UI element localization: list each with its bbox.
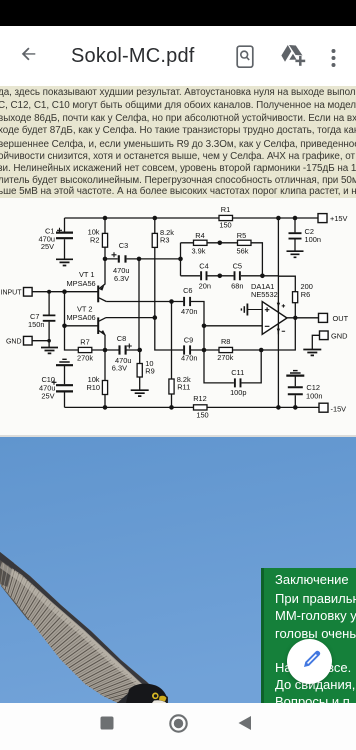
label C9 <box>181 335 197 362</box>
svg-text:100n: 100n <box>306 391 322 400</box>
capacitor C7 <box>43 315 56 320</box>
capacitor C10 <box>52 380 74 392</box>
svg-text:OUT: OUT <box>333 314 349 323</box>
svg-text:MPSA06: MPSA06 <box>67 313 96 322</box>
navigation bar <box>0 703 356 750</box>
svg-text:R10: R10 <box>86 383 100 392</box>
wire R10 branch <box>104 335 106 407</box>
label -15V <box>331 404 347 413</box>
label GND input <box>6 339 22 346</box>
svg-text:150: 150 <box>196 411 208 420</box>
wire -15V rail <box>65 406 320 408</box>
svg-text:+15V: +15V <box>330 214 348 223</box>
label C12 <box>306 383 322 400</box>
falcon eye <box>152 693 159 700</box>
svg-text:R3: R3 <box>160 235 169 244</box>
wire gnd input line <box>32 341 49 347</box>
resistor R1 <box>219 215 233 220</box>
svg-text:R6: R6 <box>301 290 310 299</box>
svg-text:GND: GND <box>331 332 347 341</box>
label R1 <box>219 205 231 229</box>
capacitor C12 <box>288 387 303 394</box>
svg-text:VT 1: VT 1 <box>79 270 94 279</box>
wire R3 drop to VT2 collector and C9 <box>155 218 184 350</box>
svg-text:68n: 68n <box>231 282 243 291</box>
label R12 <box>193 394 208 419</box>
svg-text:C11: C11 <box>231 368 244 377</box>
wire R6 branch <box>278 276 295 318</box>
label R11 <box>177 375 191 392</box>
capacitor C8 <box>120 344 132 355</box>
falcon white chin <box>152 700 166 703</box>
label GND out <box>331 332 347 341</box>
wire opamp inverting input <box>204 326 262 350</box>
overflow menu icon <box>329 47 338 69</box>
svg-text:25V: 25V <box>41 242 54 251</box>
pdf body text <box>0 86 356 198</box>
svg-text:R7: R7 <box>80 338 89 347</box>
terminal GND out <box>320 331 329 340</box>
svg-text:100n: 100n <box>305 235 321 244</box>
svg-text:56k: 56k <box>237 247 249 256</box>
terminal OUT <box>319 313 328 322</box>
label R5 <box>237 231 249 256</box>
capacitor C4 <box>201 271 206 280</box>
svg-text:C6: C6 <box>183 286 192 295</box>
svg-text:GND: GND <box>6 339 22 346</box>
resistor R7 <box>78 347 92 352</box>
svg-text:C8: C8 <box>117 334 126 343</box>
wire R2/VT1 emitter branch <box>99 218 105 289</box>
wire VT1 collector line <box>106 302 204 326</box>
svg-text:C5: C5 <box>233 261 242 270</box>
wire C7 branch <box>48 292 50 341</box>
falcon neck and back <box>117 687 168 703</box>
svg-text:470n: 470n <box>181 307 197 316</box>
wire C4 C5 filter line <box>181 275 279 277</box>
label OUT <box>333 314 349 323</box>
ground at opamp noninverting input <box>241 304 262 316</box>
pencil icon <box>301 648 323 670</box>
ground at output gnd <box>303 350 321 356</box>
capacitor C1 <box>56 228 73 238</box>
svg-text:20n: 20n <box>199 282 211 291</box>
wire C12 branch <box>294 376 296 407</box>
svg-text:150: 150 <box>219 220 231 229</box>
resistor R12 <box>194 405 208 410</box>
svg-text:6.3V: 6.3V <box>112 364 127 373</box>
falcon dark wing leading edge <box>0 552 163 700</box>
svg-text:-15V: -15V <box>331 404 347 413</box>
label R10 <box>86 375 100 392</box>
capacitor C3 <box>112 252 126 262</box>
wire R9 branch <box>139 350 141 390</box>
floating edit button <box>287 639 332 684</box>
wire C11 loop <box>204 350 261 383</box>
op-amp DA1A1 <box>262 302 287 335</box>
svg-text:6.3V: 6.3V <box>114 274 129 283</box>
falcon light strip under leading edge <box>0 562 156 699</box>
wire output <box>287 317 319 319</box>
svg-text:R9: R9 <box>145 367 154 376</box>
back arrow icon <box>20 46 38 64</box>
ground under C2 <box>287 251 304 257</box>
wire input line <box>32 292 98 350</box>
drive-add icon <box>281 45 306 67</box>
falcon beak <box>159 696 167 702</box>
green conclusion box <box>261 568 356 703</box>
svg-text:270k: 270k <box>217 353 233 362</box>
wire R4 loop left <box>181 243 263 276</box>
wire C9 to R8 <box>191 349 261 351</box>
falcon wingtip feather fingers <box>0 565 22 599</box>
resistor R9 <box>137 364 142 378</box>
find-in-page icon <box>236 45 256 69</box>
wire VT2 collector line <box>106 317 155 319</box>
chassis above C10 <box>56 359 73 365</box>
label INPUT <box>1 290 23 297</box>
label VT2 <box>67 304 96 322</box>
svg-text:3.9k: 3.9k <box>192 247 206 256</box>
terminal +15V <box>318 214 327 223</box>
wire feedback from output <box>261 318 295 350</box>
photo page <box>0 437 356 703</box>
terminal -15V <box>319 403 328 412</box>
label R9 <box>145 359 154 375</box>
home circle icon <box>169 714 188 733</box>
label R6 <box>301 282 313 299</box>
label C2 <box>305 227 321 244</box>
label C3 <box>113 241 129 283</box>
svg-text:MPSA56: MPSA56 <box>67 279 96 288</box>
label C5 <box>231 261 243 290</box>
capacitor C5 <box>235 271 240 280</box>
chassis above C12 <box>286 371 304 376</box>
falcon barred underwing <box>0 552 168 703</box>
label +15V <box>330 214 348 223</box>
resistor R8 <box>219 347 233 352</box>
resistor R6 <box>293 292 298 303</box>
svg-text:150n: 150n <box>28 320 44 329</box>
svg-text:C9: C9 <box>184 335 193 344</box>
label R4 <box>192 231 206 256</box>
ground under C1 <box>56 259 73 265</box>
label C1 <box>39 226 55 251</box>
transistor VT2 <box>98 317 106 335</box>
wire C10 branch <box>64 366 66 408</box>
label C4 <box>199 261 211 290</box>
svg-text:VT 2: VT 2 <box>77 304 92 313</box>
capacitor C2 <box>289 233 302 238</box>
resistor R11 <box>169 379 174 394</box>
svg-text:C3: C3 <box>119 241 128 250</box>
recents square icon <box>100 716 114 730</box>
svg-text:470n: 470n <box>181 353 197 362</box>
svg-text:R8: R8 <box>221 337 230 346</box>
label R8 <box>217 337 233 362</box>
svg-text:R11: R11 <box>177 383 190 392</box>
label R2 <box>88 228 100 245</box>
wire +15V rail <box>65 217 319 219</box>
terminal INPUT <box>24 288 33 297</box>
terminal GND input <box>24 336 33 345</box>
wire C1 branch <box>64 218 66 259</box>
junction dots <box>47 216 298 410</box>
wire C3 node <box>105 258 181 260</box>
label DA1A1 <box>251 282 278 299</box>
svg-text:R1: R1 <box>221 205 230 214</box>
wire VT2 base <box>65 325 99 327</box>
label C8 <box>112 334 132 373</box>
capacitor C6 <box>184 297 190 306</box>
capacitor C11 <box>235 378 241 387</box>
transistor VT1 <box>98 285 106 302</box>
svg-text:270k: 270k <box>77 354 93 363</box>
svg-text:C4: C4 <box>199 261 208 270</box>
ground at gnd input <box>41 348 58 354</box>
svg-text:R5: R5 <box>237 231 246 240</box>
svg-text:R2: R2 <box>90 236 99 245</box>
resistor R3 <box>152 233 157 247</box>
resistor R10 <box>102 381 107 395</box>
label R3 <box>160 228 174 245</box>
wire opamp supply vertical <box>277 218 279 407</box>
falcon head <box>126 684 168 703</box>
resistor R5 <box>238 240 252 245</box>
wire output gnd <box>312 335 319 349</box>
svg-text:INPUT: INPUT <box>1 290 23 297</box>
wire C3 to C8 vertical <box>138 259 140 350</box>
label R7 <box>77 338 93 363</box>
svg-text:NE5532: NE5532 <box>251 290 278 299</box>
svg-text:25V: 25V <box>41 392 54 401</box>
label VT1 <box>67 270 96 288</box>
svg-text:R12: R12 <box>193 394 207 403</box>
status bar <box>0 0 356 26</box>
wire R7 C8 emitter line <box>92 349 140 351</box>
back triangle icon <box>238 716 251 730</box>
ground under R9 <box>131 390 149 396</box>
app bar <box>0 26 356 86</box>
label C11 <box>230 368 246 397</box>
wire C2 branch <box>294 218 296 251</box>
resistor R4 <box>194 240 208 245</box>
wire R11 branch <box>171 302 173 408</box>
schematic band placeholder <box>0 198 356 436</box>
capacitor C9 <box>184 345 190 354</box>
label C10 <box>39 375 55 401</box>
label C7 <box>28 312 44 329</box>
label C6 <box>181 286 197 316</box>
svg-text:R4: R4 <box>195 231 204 240</box>
resistor R2 <box>102 233 107 247</box>
svg-text:100p: 100p <box>230 388 246 397</box>
